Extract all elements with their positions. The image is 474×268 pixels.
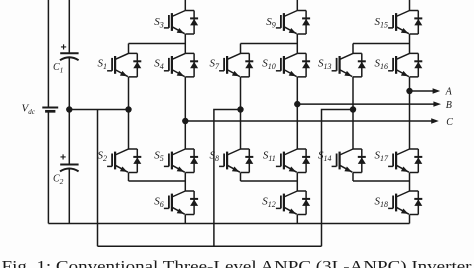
wire: neutral riser to leg 3 xyxy=(322,110,354,247)
wire: DC+ to S15 collector xyxy=(409,0,411,11)
transistor S12 xyxy=(276,191,310,215)
wire: phase B output line xyxy=(297,103,434,105)
transistor S15 xyxy=(388,11,422,35)
svg-text:B: B xyxy=(446,100,452,111)
wire: S2 emitter stub xyxy=(128,173,130,182)
wire: DC+ rail drop to battery xyxy=(47,0,49,107)
wire: S16 emitter to S17 collector xyxy=(409,77,411,149)
transistor S2 xyxy=(107,149,141,173)
wire: bottom neutral routing line xyxy=(98,245,322,247)
arrow: phase B xyxy=(433,101,441,106)
transistor S10 xyxy=(276,53,310,77)
wire: C1 to neutral node xyxy=(68,58,70,110)
transistor S14 xyxy=(332,149,366,173)
transistor S18 xyxy=(388,191,422,215)
wire: S12 emitter to DC- bus xyxy=(296,215,298,224)
transistor S9 xyxy=(276,11,310,35)
arrow: phase A xyxy=(433,88,441,93)
transistor S11 xyxy=(276,149,310,173)
node: phase output leg 3 xyxy=(406,88,412,94)
wire: S18 emitter to DC- bus xyxy=(409,215,411,224)
wire: S7 emitter to neutral xyxy=(240,77,242,110)
node: phase output leg 2 xyxy=(294,101,300,107)
arrow: phase C xyxy=(431,118,439,123)
wire: S9 emitter to S10 collector xyxy=(296,34,298,53)
node: phase output leg 1 xyxy=(182,118,188,124)
wire: S1 collector to upper midpoint xyxy=(129,43,186,45)
transistor S13 xyxy=(332,53,366,77)
wire: neutral tap down to routing line xyxy=(97,110,99,247)
svg-text:+: + xyxy=(60,151,66,163)
node: leg 1 neutral clamp point xyxy=(125,106,131,112)
wire: stub to S1 collector xyxy=(128,44,130,54)
wire: S2 emitter to lower midpoint xyxy=(129,180,186,182)
wire: DC- bus xyxy=(48,223,409,225)
wire: phase C output line xyxy=(185,120,432,122)
wire: neutral to S8 collector xyxy=(240,110,242,150)
node: leg 2 neutral clamp point xyxy=(237,106,243,112)
transistor S5 xyxy=(164,149,198,173)
wire: S6 emitter to DC- bus xyxy=(184,215,186,224)
wire: neutral to S2 collector xyxy=(128,110,130,150)
wire: S13 collector to upper midpoint xyxy=(353,43,410,45)
transistor S16 xyxy=(388,53,422,77)
wire: S5 emitter to S6 collector xyxy=(184,173,186,192)
wire: top to capacitor C1 xyxy=(68,0,70,53)
battery Vdc xyxy=(42,107,58,109)
wire: S4 emitter to S5 collector xyxy=(184,77,186,149)
wire: stub to S13 collector xyxy=(352,44,354,54)
wire: S17 emitter to S18 collector xyxy=(409,173,411,192)
transistor S17 xyxy=(388,149,422,173)
transistor S7 xyxy=(219,53,253,77)
wire: S10 emitter to S11 collector xyxy=(296,77,298,149)
svg-text:+: + xyxy=(61,41,67,53)
node: leg 3 neutral clamp point xyxy=(350,106,356,112)
wire: battery negative to DC- bus xyxy=(47,111,49,223)
wire: S7 collector to upper midpoint xyxy=(241,43,298,45)
wire: S15 emitter to S16 collector xyxy=(409,34,411,53)
wire: S13 emitter to neutral xyxy=(352,77,354,110)
wire: S14 emitter to lower midpoint xyxy=(353,180,410,182)
wire: C2 to DC- bus xyxy=(68,169,70,224)
wire: DC+ to S3 collector xyxy=(184,0,186,11)
wire: neutral node to capacitor C2 xyxy=(68,110,70,165)
wire: neutral riser to leg 2 xyxy=(214,110,241,247)
wire: S8 emitter stub xyxy=(240,173,242,182)
transistor S4 xyxy=(164,53,198,77)
wire: DC+ to S9 collector xyxy=(296,0,298,11)
wire: neutral bus to leg 1 clamp xyxy=(69,109,128,111)
wire: phase A output line xyxy=(410,90,434,92)
svg-text:Fig. 1: Conventional Three-Lev: Fig. 1: Conventional Three-Level ANPC (3… xyxy=(2,259,472,268)
wire: neutral to S14 collector xyxy=(352,110,354,150)
transistor S1 xyxy=(107,53,141,77)
svg-text:C: C xyxy=(446,117,453,128)
wire: S11 emitter to S12 collector xyxy=(296,173,298,192)
node: neutral point at capacitor midpoint xyxy=(66,106,72,112)
svg-text:A: A xyxy=(445,86,453,97)
wire: S3 emitter to S4 collector xyxy=(184,34,186,53)
wire: S14 emitter stub xyxy=(352,173,354,182)
wire: stub to S7 collector xyxy=(240,44,242,54)
transistor S6 xyxy=(164,191,198,215)
wire: S1 emitter to neutral xyxy=(128,77,130,110)
transistor S8 xyxy=(219,149,253,173)
wire: S8 emitter to lower midpoint xyxy=(241,180,298,182)
transistor S3 xyxy=(164,11,198,35)
